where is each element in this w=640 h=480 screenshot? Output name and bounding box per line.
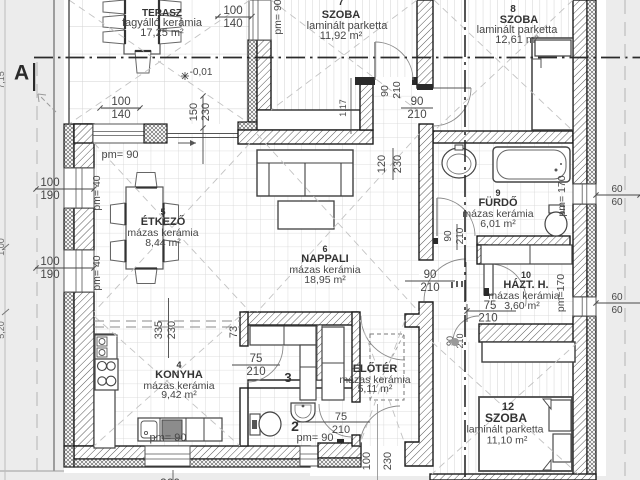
svg-text:210: 210 — [391, 81, 403, 99]
svg-text:230: 230 — [200, 103, 212, 121]
svg-text:140: 140 — [223, 18, 242, 30]
svg-text:18,95 m²: 18,95 m² — [304, 274, 346, 286]
svg-text:210: 210 — [407, 109, 426, 121]
svg-text:7: 7 — [338, 0, 344, 8]
svg-text:9,42 m²: 9,42 m² — [161, 389, 197, 401]
svg-text:11,10 m²: 11,10 m² — [487, 435, 528, 447]
svg-text:60: 60 — [611, 197, 623, 208]
svg-text:100: 100 — [40, 177, 59, 189]
svg-text:190: 190 — [40, 269, 59, 281]
svg-text:210: 210 — [332, 424, 350, 436]
svg-text:17,25 m²: 17,25 m² — [140, 27, 184, 39]
svg-text:140: 140 — [111, 109, 130, 121]
svg-text:A: A — [14, 62, 29, 85]
svg-text:73: 73 — [228, 326, 240, 338]
svg-text:90: 90 — [443, 230, 454, 242]
svg-text:150: 150 — [188, 103, 200, 121]
svg-text:230: 230 — [166, 321, 178, 339]
svg-text:5,11 m²: 5,11 m² — [358, 383, 393, 395]
svg-text:12,61 m²: 12,61 m² — [495, 34, 539, 46]
svg-text:3: 3 — [284, 370, 291, 385]
svg-text:210: 210 — [246, 366, 265, 378]
svg-text:pm= 90: pm= 90 — [102, 149, 139, 161]
svg-text:60: 60 — [611, 292, 623, 303]
svg-text:8,44 m²: 8,44 m² — [145, 237, 181, 249]
svg-text:60: 60 — [611, 305, 623, 316]
svg-text:11,92 m²: 11,92 m² — [320, 30, 363, 42]
svg-text:260: 260 — [160, 476, 180, 480]
svg-text:335: 335 — [153, 321, 165, 339]
svg-text:100: 100 — [111, 96, 130, 108]
svg-text:190: 190 — [40, 190, 59, 202]
svg-text:5,20: 5,20 — [0, 321, 6, 339]
svg-text:100: 100 — [223, 5, 242, 17]
svg-text:pm= 40: pm= 40 — [91, 175, 103, 210]
svg-text:6,01 m²: 6,01 m² — [480, 218, 516, 230]
svg-text:7,15: 7,15 — [0, 71, 6, 89]
svg-text:pm= 90: pm= 90 — [272, 0, 284, 35]
svg-text:pm= 90: pm= 90 — [150, 432, 187, 444]
svg-text:pm= 40: pm= 40 — [91, 255, 103, 290]
svg-text:90: 90 — [379, 85, 391, 97]
svg-text:100: 100 — [40, 256, 59, 268]
svg-text:90: 90 — [411, 96, 424, 108]
svg-text:230: 230 — [382, 452, 394, 470]
svg-text:1,17: 1,17 — [338, 99, 348, 117]
svg-text:pm=170: pm=170 — [555, 274, 567, 312]
svg-text:pm= 170: pm= 170 — [556, 175, 568, 216]
svg-text:pm= 90: pm= 90 — [297, 432, 334, 444]
svg-text:60: 60 — [611, 184, 623, 195]
svg-text:1,00: 1,00 — [0, 238, 6, 256]
svg-text:75: 75 — [335, 411, 347, 423]
svg-text:100: 100 — [361, 452, 373, 470]
svg-text:75: 75 — [484, 300, 497, 312]
svg-text:210: 210 — [478, 313, 497, 325]
svg-text:-0,01: -0,01 — [190, 67, 213, 78]
svg-text:75: 75 — [250, 353, 263, 365]
svg-text:90: 90 — [424, 269, 437, 281]
svg-text:210: 210 — [420, 282, 439, 294]
svg-text:230: 230 — [392, 155, 404, 173]
svg-text:120: 120 — [376, 155, 388, 173]
svg-text:3,60 m²: 3,60 m² — [504, 300, 540, 312]
